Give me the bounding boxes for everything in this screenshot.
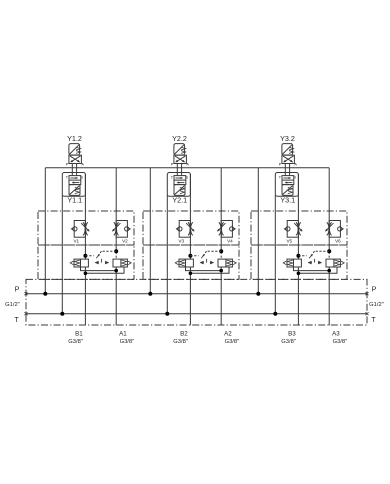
svg-text:V4: V4 <box>227 238 233 243</box>
svg-text:Y3.1: Y3.1 <box>280 196 295 205</box>
svg-text:P: P <box>372 287 377 294</box>
svg-text:G3/8": G3/8" <box>281 339 296 345</box>
svg-text:A2: A2 <box>224 330 232 337</box>
svg-text:A1: A1 <box>119 330 127 337</box>
svg-text:V2: V2 <box>122 238 128 243</box>
svg-text:V3: V3 <box>178 238 184 243</box>
svg-text:V5: V5 <box>286 238 292 243</box>
svg-text:G3/8": G3/8" <box>225 339 240 345</box>
svg-text:G1/2": G1/2" <box>369 302 384 308</box>
svg-text:G1/2": G1/2" <box>5 302 20 308</box>
svg-text:V6: V6 <box>335 238 341 243</box>
svg-text:Y2.2: Y2.2 <box>172 134 187 143</box>
svg-text:Y2.1: Y2.1 <box>172 196 187 205</box>
svg-text:B2: B2 <box>180 330 188 337</box>
svg-text:G3/8": G3/8" <box>333 339 348 345</box>
svg-text:T: T <box>371 317 376 324</box>
svg-text:V1: V1 <box>73 238 79 243</box>
svg-text:T: T <box>14 317 19 324</box>
svg-text:Y1.1: Y1.1 <box>67 196 82 205</box>
svg-text:G3/8": G3/8" <box>120 339 135 345</box>
svg-text:P: P <box>15 287 20 294</box>
svg-text:B1: B1 <box>75 330 83 337</box>
svg-text:B3: B3 <box>288 330 296 337</box>
svg-text:Y1.2: Y1.2 <box>67 134 82 143</box>
svg-text:A3: A3 <box>332 330 340 337</box>
svg-text:G3/8": G3/8" <box>173 339 188 345</box>
svg-text:Y3.2: Y3.2 <box>280 134 295 143</box>
svg-text:G3/8": G3/8" <box>68 339 83 345</box>
